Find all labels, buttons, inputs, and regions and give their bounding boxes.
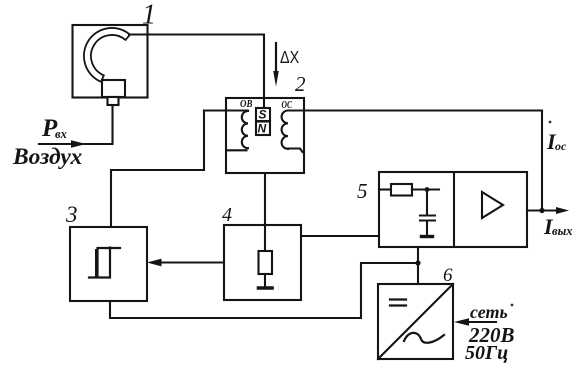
svg-text:ОС: ОС — [282, 99, 293, 110]
svg-text:1: 1 — [142, 0, 156, 31]
svg-text:ос: ос — [555, 139, 567, 153]
svg-text:ОВ: ОВ — [240, 98, 253, 110]
svg-text:2: 2 — [295, 72, 306, 96]
svg-text:N: N — [258, 122, 267, 136]
svg-text:вх: вх — [55, 127, 67, 141]
svg-text:6: 6 — [443, 265, 453, 286]
svg-text:3: 3 — [65, 202, 78, 227]
svg-text:Воздух: Воздух — [12, 144, 82, 170]
svg-text:ΔX: ΔX — [280, 49, 299, 68]
svg-text:4: 4 — [222, 204, 232, 226]
svg-text:50Гц: 50Гц — [465, 342, 508, 364]
svg-text:5: 5 — [357, 179, 368, 203]
svg-text:S: S — [259, 108, 267, 122]
svg-text:вых: вых — [552, 224, 573, 238]
svg-text:сеть: сеть — [470, 302, 508, 322]
